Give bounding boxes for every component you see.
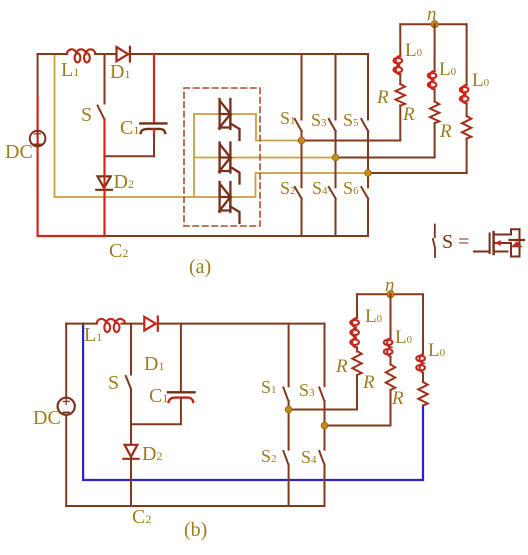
diode D1 (b) <box>144 317 158 331</box>
svg-text:R: R <box>376 87 389 108</box>
MOSFET source stub <box>494 251 508 253</box>
wire: S2 column lower lead to bottom rail <box>301 199 303 236</box>
resistor R branch 2 (b) <box>386 365 395 391</box>
wire: branch 3 lead between L0 and R (a) <box>466 103 468 116</box>
svg-text:C2: C2 <box>132 506 151 528</box>
svg-text:S1: S1 <box>261 377 277 397</box>
inductor L0 branch 2 (b) <box>384 338 393 357</box>
svg-text:L1: L1 <box>84 324 102 346</box>
capacitor C1 (b) plates <box>168 392 195 402</box>
switch S3 blade (b) <box>319 388 324 402</box>
wire: gold gate bus from top rail down-left side into thyristor box <box>55 54 220 197</box>
svg-text:S: S <box>108 372 119 394</box>
wire: branch 1 lower lead down to horizontal (a) <box>399 106 401 141</box>
wire: branch 3 lead between L0 and R (b) <box>422 373 424 382</box>
svg-text:S6: S6 <box>343 178 359 198</box>
svg-text:S2: S2 <box>280 178 296 198</box>
switch S (a): blade <box>98 106 105 120</box>
svg-text:L0: L0 <box>428 340 446 361</box>
svg-text:C1: C1 <box>149 385 168 407</box>
node junction dot at S5 column <box>365 170 372 177</box>
triac U3 <box>220 182 240 223</box>
svg-text:L0: L0 <box>472 70 490 91</box>
node n dot (b) <box>387 291 394 298</box>
svg-text:S3: S3 <box>299 380 315 400</box>
switch S (b): blade <box>126 376 131 389</box>
wire: branch 3 lower lead down to horizontal (a) <box>466 139 468 173</box>
svg-text:S4: S4 <box>312 178 328 198</box>
svg-text:n: n <box>427 4 437 25</box>
svg-text:n: n <box>385 275 395 296</box>
node n dot (a) <box>431 21 438 28</box>
svg-text:C1: C1 <box>120 117 139 139</box>
triac U2 <box>220 143 240 184</box>
wire: brown line from S1 junction to load branch 1 <box>302 140 401 142</box>
wire: load top bar (a) with node n <box>400 23 466 25</box>
switch S (a): lower lead (red) down to C1 tie point <box>103 119 105 156</box>
wire: gold output 3 from triac U3 right terminal up and to switch S5 junction <box>230 173 368 197</box>
switch S3 blade <box>329 119 336 131</box>
wire: branch 2 lower lead down to horizontal (a) <box>434 123 436 157</box>
switch S4 blade <box>329 187 336 199</box>
wire: bottom rail red segment <box>38 235 105 237</box>
svg-text:R: R <box>439 121 452 142</box>
svg-text:R: R <box>391 388 404 409</box>
wire: load top bar (b) <box>357 293 423 295</box>
inductor L0 branch 3 (b) <box>416 354 425 373</box>
wire: red vertical from S branch down to D2 <box>103 156 105 176</box>
node junction dot at S1 column <box>298 137 305 144</box>
svg-text:S2: S2 <box>261 446 277 466</box>
MOSFET body diode triangle <box>511 241 523 247</box>
legend switch symbol upper lead <box>434 225 436 238</box>
wire: load branch 2 upper lead (a) <box>434 24 436 71</box>
svg-text:S =: S = <box>442 231 469 253</box>
switch S1 column upper lead (b) <box>288 324 290 387</box>
capacitor C1 (a) plates <box>140 123 166 133</box>
wire: C1 lower lead and connector to S branch (b) <box>131 399 181 425</box>
resistor R branch 2 (a) <box>430 102 439 124</box>
inductor L1 (a) <box>67 49 95 62</box>
wire: branch 2 lead between L0 and R (a) <box>434 89 436 101</box>
wire: red vertical from D2 to bottom rail <box>103 176 105 236</box>
node junction dot at S3 column (b) <box>321 422 328 429</box>
wire: brown line from S1 junction to load branch 1 (b) <box>289 409 357 411</box>
switch S1 blade (b) <box>283 388 288 402</box>
MOSFET body stub joining source corner <box>494 243 511 257</box>
inductor L0 branch 2 (a) <box>428 71 437 89</box>
MOSFET body arrow <box>494 240 501 246</box>
wire: S3/S4 column middle segment (b) <box>324 401 326 450</box>
svg-text:D2: D2 <box>114 171 134 193</box>
svg-text:L0: L0 <box>395 327 413 348</box>
inductor L1 (b) <box>97 319 125 332</box>
MOSFET drain stub and top hook <box>494 229 520 234</box>
MOSFET gate bar <box>489 234 491 254</box>
wire: load branch 3 upper lead (a) <box>466 24 468 85</box>
switch S (b): upper lead <box>130 324 132 375</box>
wire: S2 column lower lead (b) <box>288 465 290 507</box>
svg-text:(b): (b) <box>184 519 207 541</box>
resistor R branch 1 (a) <box>396 84 405 106</box>
switch S5 column upper lead <box>367 54 369 120</box>
node junction dot at S3 column <box>332 154 339 161</box>
wire: brown line from S3 junction to load branch 2 (b) <box>325 425 391 427</box>
inductor L0 branch 1 (a) <box>394 56 403 74</box>
wire: gold stub to triac U2 left terminal <box>194 157 220 159</box>
wire: branch 2 lead between L0 and R (b) <box>390 357 392 365</box>
wire: brown connector from S branch to C1 bottom <box>105 155 155 157</box>
wire: S4 column lower lead to bottom rail <box>335 199 337 236</box>
wire: gold vertical bus inside box feeding triac left terminals <box>193 114 195 197</box>
inductor L0 branch 1 (b) <box>350 318 359 347</box>
svg-text:R: R <box>402 104 415 125</box>
wire: load branch 1 upper lead (a) <box>399 24 401 56</box>
wire: vertical from D2 to bottom rail (b) <box>130 457 132 506</box>
wire: left rail of (b) above DC source <box>65 324 67 398</box>
switch S5 blade <box>361 119 368 131</box>
switch S2 blade (b) <box>283 451 288 465</box>
node junction dot at S1 column (b) <box>285 406 292 413</box>
wire: gold stub to triac U1 left terminal <box>194 113 220 115</box>
wire: brown line from S3 junction to load branch 2 <box>336 157 435 159</box>
MOSFET symbol in legend: gate lead <box>474 251 489 253</box>
switch S3 column upper lead (b) <box>324 324 326 387</box>
switch S1 blade <box>295 119 302 131</box>
resistor R branch 1 (b) <box>352 351 361 375</box>
resistor R branch 3 (a) <box>462 116 471 139</box>
wire: left rail red segment below DC source to bottom rail <box>36 146 38 236</box>
switch S (a): upper lead <box>104 54 106 104</box>
wire: left rail upper segment (brown) <box>37 54 39 98</box>
triac U1 <box>220 99 240 140</box>
MOSFET body diode branch <box>511 229 520 256</box>
wire: branch 1 lower lead (b) <box>356 375 358 410</box>
svg-text:C2: C2 <box>109 240 128 262</box>
capacitor C1 (b): lead from top rail <box>180 324 182 392</box>
wire: S4 column lower lead (b) <box>324 465 326 507</box>
svg-text:S3: S3 <box>311 110 327 130</box>
wire: gold output 2 from triac U2 right terminal to switch S3 junction <box>230 157 335 159</box>
diode D2 (a) <box>96 176 112 189</box>
wire: red vertical through DC source circle <box>36 131 38 147</box>
wire: gold output 1 from triac U1 right terminal to switch S1 junction <box>230 114 301 141</box>
wire: S lower lead down to connector (b) <box>130 389 132 425</box>
capacitor C1 (a): red lead from top rail <box>153 54 155 123</box>
diode D2 (b) <box>123 445 138 459</box>
wire: load branch 2 upper lead (b) <box>390 294 392 338</box>
wire: S1/S2 column middle segment <box>301 131 303 187</box>
wire: branch 1 lead between L0 and R (a) <box>399 74 401 84</box>
wire: brown lead from C1 to connector <box>153 136 155 156</box>
wire: S6 column lower lead to bottom rail <box>367 199 369 236</box>
svg-text:S5: S5 <box>343 110 359 130</box>
svg-text:S1: S1 <box>280 108 296 128</box>
wire: load branch 1 upper lead (b) <box>356 294 358 318</box>
svg-text:DC: DC <box>5 141 33 163</box>
wire: S3/S4 column middle segment <box>335 131 337 187</box>
wire: blue return loop from top rail down, across and up to load branch 3 <box>83 324 423 480</box>
capacitor C1 (a): red lead below bottom plate <box>153 130 155 137</box>
svg-text:L0: L0 <box>439 59 457 80</box>
wire: vertical from connector down to D2 (b) <box>130 424 132 444</box>
voltage source DC (b) <box>58 398 75 415</box>
inductor L0 branch 3 (a) <box>460 85 469 103</box>
resistor R branch 3 (b) <box>418 382 427 406</box>
switch S4 blade (b) <box>319 451 324 465</box>
svg-text:L0: L0 <box>365 306 383 327</box>
svg-text:D2: D2 <box>142 443 162 465</box>
wire: top rail of figure (b) <box>66 323 324 325</box>
wire: brown line from S5 junction to load branch 3 <box>368 172 467 174</box>
switch S1 column upper lead <box>301 54 303 120</box>
wire: load branch 3 upper lead (b) <box>422 294 424 354</box>
wire: top rail of figure (a) <box>38 53 368 55</box>
svg-text:S: S <box>81 104 92 126</box>
svg-text:D1: D1 <box>144 353 164 375</box>
legend switch lower lead <box>434 248 436 257</box>
wire: branch 2 lower lead (b) <box>390 390 392 426</box>
switch S3 column upper lead <box>335 54 337 120</box>
diode D1 (a) <box>117 47 130 62</box>
svg-text:D1: D1 <box>110 61 130 83</box>
switch S2 blade <box>295 187 302 199</box>
wire: left rail red segment above DC source <box>36 98 38 131</box>
svg-text:R: R <box>335 356 348 377</box>
wire: S5/S6 column middle segment <box>367 131 369 187</box>
wire: left rail of (b) below DC source and bottom rail <box>66 415 324 506</box>
dashed thyristor box <box>184 88 260 226</box>
MOSFET body diode bar <box>510 239 525 241</box>
legend switch blade <box>433 239 435 248</box>
svg-text:R: R <box>362 372 375 393</box>
MOSFET channel bar <box>492 232 494 254</box>
svg-text:L0: L0 <box>405 40 423 61</box>
svg-text:(a): (a) <box>189 256 211 278</box>
svg-text:DC: DC <box>33 407 61 429</box>
wire: bottom rail brown segment <box>105 235 369 237</box>
wire: branch 1 lead between L0 and R (b) <box>356 347 358 351</box>
wire: S1/S2 column middle segment (b) <box>288 401 290 450</box>
voltage source DC (a) <box>30 131 46 147</box>
svg-text:S4: S4 <box>301 447 317 467</box>
switch S6 blade <box>361 187 368 199</box>
